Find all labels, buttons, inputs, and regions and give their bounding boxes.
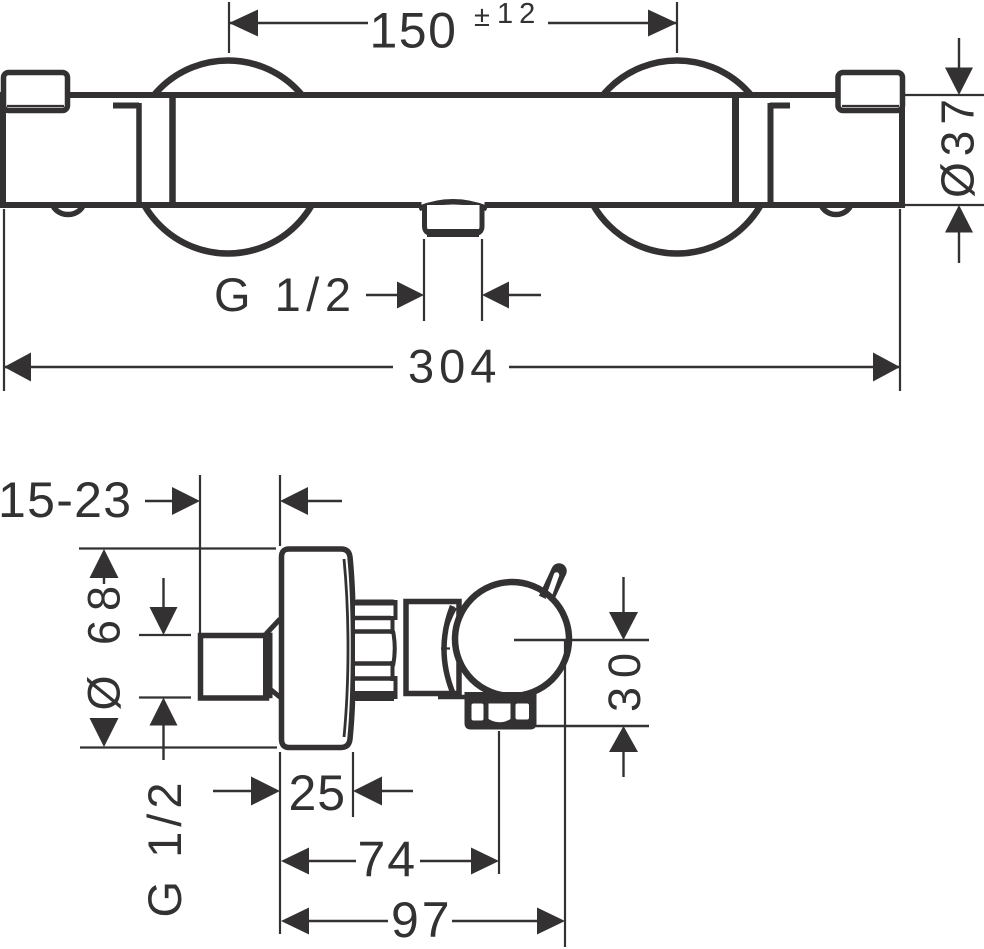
outlet dome [419,202,487,209]
dimG12top tail right [507,294,541,296]
thread block fill [355,599,400,702]
dim37 ext line bottom [905,204,984,206]
dim37 tail bottom [958,231,960,263]
right screw [821,188,852,215]
left body separator [169,95,176,205]
thread right edge c [391,661,395,681]
dim68 ext line top [79,547,276,549]
thread top flange [354,600,394,606]
dim97 arrow left [281,908,309,935]
dim74 arrow left [281,848,309,875]
thread right edge mid [393,631,395,666]
dim30 ext line bottom [535,725,649,727]
union square [201,636,267,699]
outlet nut [465,692,537,730]
dimG12b arrow down [150,607,178,635]
nut window right [516,704,530,720]
dimG12b tail top [162,578,164,610]
dimG12top tail left [366,294,399,296]
dim68 arrow up [90,549,119,578]
svg-text:74: 74 [358,832,418,888]
outlet dome mask [422,199,485,210]
thread line 2 [354,616,392,621]
dim37 arrow up [945,205,973,233]
dim30 arrow up [609,726,638,752]
mixer bar body [3,95,902,205]
left handle step tick [113,103,139,109]
dim97 ext line right [564,641,566,947]
handle skirt arc [444,606,453,692]
dim37 value [932,93,984,198]
dimG12b tail bottom [162,723,164,760]
dim1523 tail right [306,500,342,502]
union chamfer top [266,619,280,634]
dim1523 arrow right-pointing [172,487,200,515]
svg-text:12: 12 [497,0,541,30]
svg-text:G 1/2: G 1/2 [214,268,356,321]
dim30 ext line top [514,639,649,641]
right cap inner line [842,105,899,107]
dim25 arrow right-pointing [251,777,280,806]
dim1523 ext line escutcheon [279,475,281,546]
union chamfer bottom [270,689,281,698]
dim25 ext line right [352,752,354,817]
dimG12b ext line top [139,634,191,636]
dim37 ext line top [905,94,984,96]
svg-text:15-23: 15-23 [0,472,132,528]
dimG12top ext line left [423,239,425,321]
dim68 arrow down [90,718,119,747]
dim25 arrow left-pointing [353,777,382,806]
dim37 arrow down [945,68,973,96]
svg-text:G 1/2: G 1/2 [138,778,191,918]
dim74 arrow right [471,848,499,875]
nut window middle [489,704,511,723]
left handle cap [4,73,68,111]
handle lever tip [551,563,567,579]
dim150 line left [229,22,368,24]
dimG12top arrow right-pointing [397,282,424,309]
mixer body side [406,602,459,694]
nut window left [472,704,484,721]
dim30 tail bottom [622,750,624,777]
thread right edge b [391,616,395,634]
handle skirt tick [441,647,450,649]
dim30 tail top [622,577,624,614]
left screw [52,188,84,215]
dim304 line right [509,366,900,368]
right handle step tick [770,103,790,109]
center outlet body [425,205,483,234]
dim304 ext line right [899,209,901,391]
dim150 arrow right [648,10,677,37]
handle knob rim [455,582,569,696]
right handle cap [838,73,903,111]
dim25 tail left [213,790,253,792]
thread right edge d [394,676,398,699]
dim30 value [599,644,650,712]
svg-text:Ø37: Ø37 [932,93,984,198]
handle lever outer [546,571,559,599]
dim150 ext line right [676,2,678,53]
thread line 3 [354,629,394,634]
dim304 ext line left [3,209,5,391]
right escutcheon circle [581,61,774,254]
dimG12b ext line bottom [139,696,191,698]
right handle step line [768,103,774,205]
svg-text:97: 97 [391,892,453,948]
dim30 arrow down [609,612,638,640]
dimG12top arrow left-pointing [482,282,509,309]
svg-text:25: 25 [289,765,347,821]
dim304 line left [4,366,393,368]
dim97 line left [308,920,388,922]
left handle step line [136,103,142,205]
svg-text:150: 150 [370,3,458,59]
thread line 4 [354,661,394,666]
thread bottom flange [354,691,395,701]
left cap inner line [7,105,64,107]
handle lever slot [549,575,557,598]
dim304 arrow left [4,353,31,382]
dim97 arrow right [537,908,565,935]
dim304 arrow right [873,353,900,382]
dim150 ext line left [228,2,230,53]
left escutcheon circle [132,61,325,254]
center outlet bottom edge [427,229,479,237]
handle knob fill [452,579,572,699]
svg-text:Ø 68: Ø 68 [79,577,130,711]
dim74 ext line right [498,731,500,874]
dim1523 arrow left-pointing [280,487,308,515]
dim68 stub top [103,575,105,584]
dim68 ext line bottom [80,746,277,748]
dim1523 ext line wall [199,475,201,633]
dim97 line right [452,920,538,922]
dim74 line right [420,860,472,862]
body bottom ledge [438,695,466,700]
svg-text:±: ± [474,1,490,33]
dimG12b label [138,778,191,918]
escutcheon inner contour [344,559,348,737]
dim150 line right [548,22,677,24]
dim1523 tail left [145,500,174,502]
thread line 5 [354,676,392,681]
svg-text:304: 304 [408,340,501,393]
escutcheon side [282,549,354,748]
handle skirt inner line [444,608,457,649]
dim150 arrow left [229,10,258,37]
union flange [263,633,273,699]
dim74 line left [308,860,356,862]
svg-text:30: 30 [599,644,650,712]
thread right edge a [394,600,398,620]
dimG12top ext line right [481,239,483,321]
right body separator [732,95,739,205]
dim25 tail right [380,790,413,792]
dim25 ext line left shared [279,752,281,934]
dim68 value [79,577,130,711]
dim37 tail top [958,38,960,69]
dimG12b arrow up [150,698,178,726]
